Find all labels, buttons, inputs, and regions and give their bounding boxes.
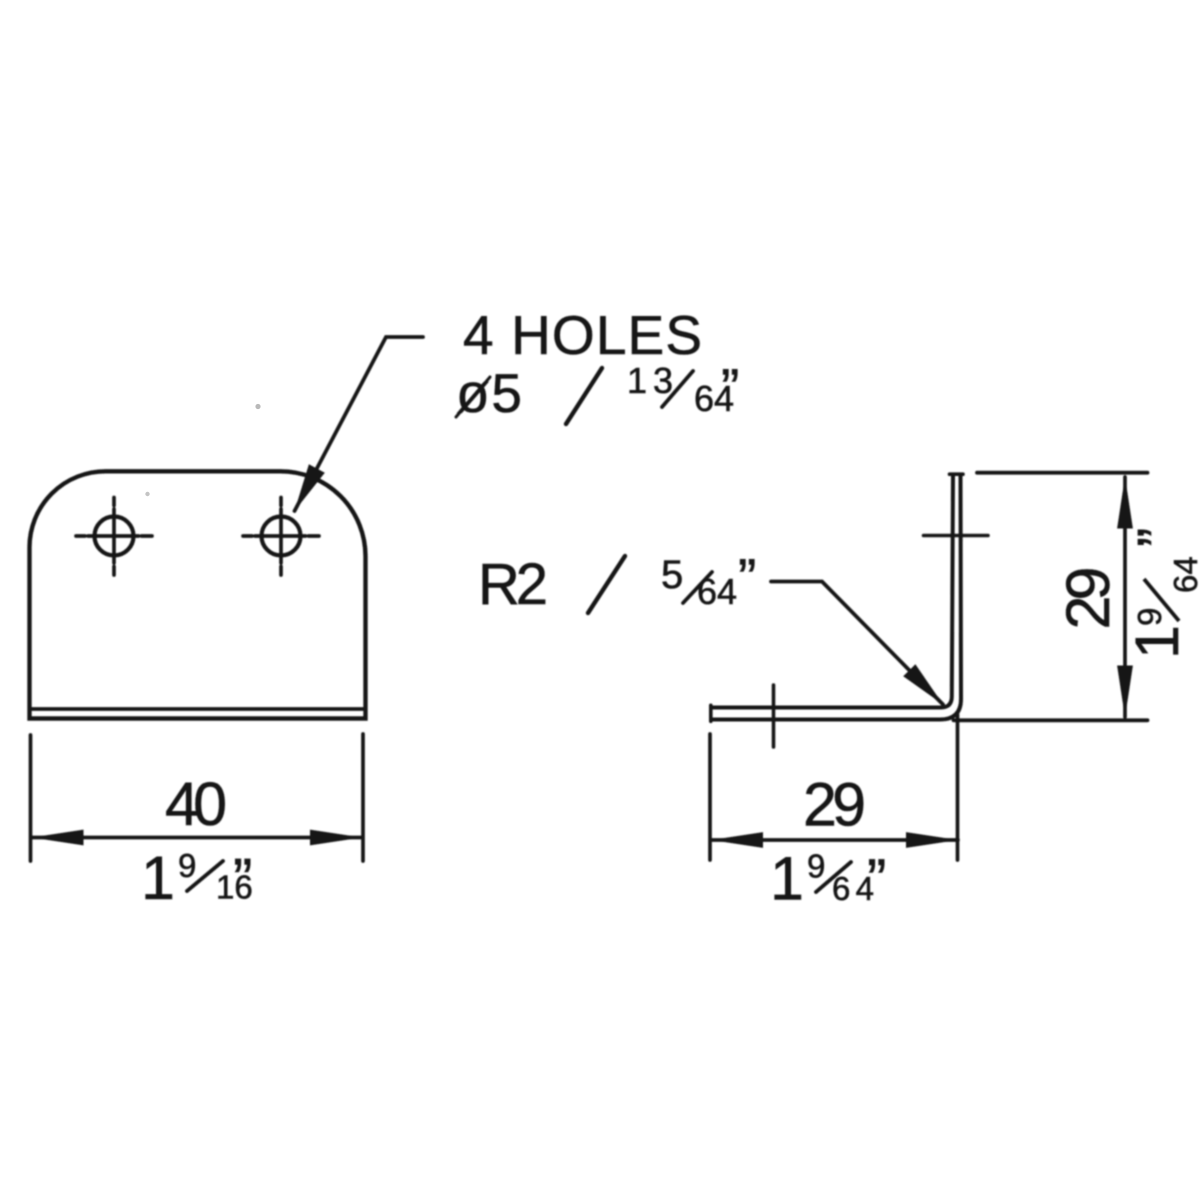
svg-text:29: 29 xyxy=(1054,567,1122,630)
L profile top cap xyxy=(950,472,964,476)
svg-text:1: 1 xyxy=(141,844,175,912)
svg-text:9: 9 xyxy=(178,847,196,884)
slash big after R2 xyxy=(588,556,625,613)
tick vertical leg xyxy=(924,534,989,538)
dim 40 extension lines xyxy=(29,735,33,861)
slash small 13/64 xyxy=(662,371,693,407)
hole left crosshair xyxy=(76,534,152,538)
vertical dim line xyxy=(1123,477,1127,717)
svg-text:”: ” xyxy=(233,847,252,912)
leader line R2 xyxy=(771,582,943,705)
faint scan speck xyxy=(145,492,149,496)
svg-text:9: 9 xyxy=(807,848,825,885)
svg-text:64: 64 xyxy=(697,571,737,612)
L profile inner line xyxy=(711,475,953,708)
slash through o of diameter symbol xyxy=(456,377,490,417)
right view bottom dim line xyxy=(711,838,958,842)
faint scan speck xyxy=(255,404,260,409)
svg-text:4 HOLES: 4 HOLES xyxy=(463,304,702,366)
slash 9/64 bottom right xyxy=(816,862,851,892)
right view top extension xyxy=(977,471,1148,475)
hole right crosshair xyxy=(243,534,319,538)
bracket front view outline xyxy=(30,471,366,718)
right view bottom dim extension lines xyxy=(708,734,712,860)
dim 40 line xyxy=(32,836,363,840)
svg-text:”: ” xyxy=(867,848,886,913)
svg-text:ø5: ø5 xyxy=(456,362,522,424)
svg-text:”: ” xyxy=(721,357,739,419)
svg-text:40: 40 xyxy=(165,770,227,838)
hole left circle xyxy=(95,517,134,556)
slash 9/16 bottom left xyxy=(187,861,223,891)
L profile outer line xyxy=(711,475,961,720)
text 1 9/64 rotated xyxy=(1123,528,1200,659)
svg-text:9: 9 xyxy=(1131,608,1168,626)
svg-text:1: 1 xyxy=(1123,625,1191,659)
svg-text:5: 5 xyxy=(661,553,683,597)
svg-text:”: ” xyxy=(1126,528,1191,547)
L profile left cap xyxy=(709,705,713,721)
tick horizontal leg xyxy=(772,685,776,747)
svg-text:64: 64 xyxy=(1167,556,1200,593)
slash big after o5 xyxy=(566,368,602,424)
svg-text:29: 29 xyxy=(803,771,866,839)
bracket fold line xyxy=(32,707,363,711)
slash small 5/64 xyxy=(683,572,712,603)
hole right circle xyxy=(262,517,301,556)
right view bottom extension xyxy=(954,718,1148,722)
svg-text:R2: R2 xyxy=(478,552,548,617)
svg-text:1: 1 xyxy=(770,845,804,913)
svg-text:”: ” xyxy=(738,547,756,609)
leader line 4 HOLES xyxy=(295,337,424,511)
